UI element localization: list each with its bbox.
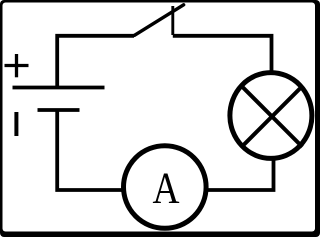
svg-text:A: A [152, 164, 179, 212]
